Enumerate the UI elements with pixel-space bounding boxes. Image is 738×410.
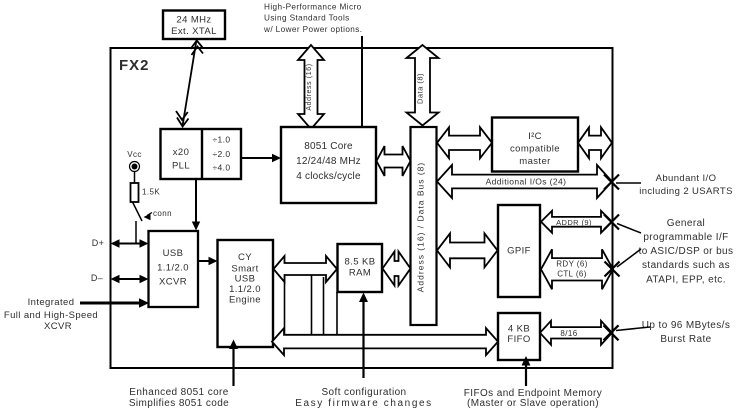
svg-text:÷4.0: ÷4.0 (212, 163, 230, 173)
svg-text:12/24/48 MHz: 12/24/48 MHz (296, 156, 361, 167)
svg-text:master: master (519, 156, 550, 167)
svg-text:Enhanced 8051 core: Enhanced 8051 core (129, 387, 229, 398)
svg-text:8.5 KB: 8.5 KB (345, 257, 376, 268)
svg-text:CY: CY (238, 252, 252, 263)
svg-text:I²C: I²C (528, 131, 542, 142)
svg-text:PLL: PLL (172, 161, 190, 172)
svg-text:programmable I/F: programmable I/F (643, 232, 728, 243)
svg-text:Burst Rate: Burst Rate (660, 334, 711, 345)
svg-text:24 MHz: 24 MHz (176, 15, 211, 26)
svg-text:Ext. XTAL: Ext. XTAL (171, 26, 217, 37)
svg-text:FIFO: FIFO (507, 334, 530, 345)
svg-text:including 2 USARTS: including 2 USARTS (639, 186, 733, 197)
svg-text:÷2.0: ÷2.0 (212, 149, 230, 159)
svg-text:CTL (6): CTL (6) (557, 270, 587, 279)
svg-text:RAM: RAM (349, 268, 371, 279)
svg-text:compatible: compatible (510, 144, 560, 155)
svg-text:w/ Lower Power options.: w/ Lower Power options. (263, 25, 362, 34)
svg-text:Address (16) / Data Bus (8): Address (16) / Data Bus (8) (416, 162, 426, 292)
svg-text:÷1.0: ÷1.0 (212, 135, 230, 145)
svg-text:Data (8): Data (8) (416, 73, 425, 104)
svg-text:Soft configuration: Soft configuration (321, 387, 406, 398)
svg-text:FX2: FX2 (119, 57, 150, 74)
svg-text:to ASIC/DSP or bus: to ASIC/DSP or bus (639, 246, 734, 257)
svg-text:XCVR: XCVR (44, 321, 72, 332)
svg-text:1.1/2.0: 1.1/2.0 (157, 263, 189, 274)
svg-text:1.1/2.0: 1.1/2.0 (229, 284, 261, 295)
svg-text:ATAPI, EPP, etc.: ATAPI, EPP, etc. (646, 275, 726, 286)
svg-text:4 clocks/cycle: 4 clocks/cycle (296, 171, 361, 182)
svg-text:USB: USB (163, 248, 184, 259)
svg-text:Using Standard Tools: Using Standard Tools (264, 14, 350, 23)
svg-text:XCVR: XCVR (159, 277, 187, 288)
svg-text:D+: D+ (92, 238, 105, 248)
svg-text:Easy firmware changes: Easy firmware changes (295, 398, 433, 409)
svg-text:8051 Core: 8051 Core (304, 141, 353, 152)
svg-text:(Master or Slave operation): (Master or Slave operation) (467, 398, 599, 409)
svg-text:standards such as: standards such as (642, 260, 730, 271)
svg-text:D–: D– (91, 273, 103, 283)
svg-text:4 KB: 4 KB (508, 324, 530, 335)
svg-text:1.5K: 1.5K (142, 188, 160, 197)
svg-text:x20: x20 (173, 147, 190, 158)
svg-text:RDY (6): RDY (6) (556, 260, 588, 269)
svg-text:High-Performance Micro: High-Performance Micro (264, 3, 362, 12)
svg-text:USB: USB (235, 274, 256, 285)
svg-text:Simplifies 8051 code: Simplifies 8051 code (129, 398, 229, 409)
svg-text:Abundant I/O: Abundant I/O (656, 173, 717, 184)
svg-text:conn: conn (153, 209, 172, 218)
svg-text:Integrated: Integrated (28, 297, 75, 308)
svg-text:ADDR (9): ADDR (9) (556, 218, 592, 227)
svg-text:Engine: Engine (229, 295, 261, 306)
svg-text:Vcc: Vcc (127, 150, 142, 159)
svg-text:Address (16): Address (16) (306, 63, 313, 110)
svg-text:8/16: 8/16 (560, 329, 577, 338)
svg-text:GPIF: GPIF (507, 246, 531, 257)
svg-text:Additional I/Os (24): Additional I/Os (24) (486, 177, 567, 187)
svg-text:General: General (667, 218, 705, 229)
svg-text:Full and High-Speed: Full and High-Speed (4, 310, 98, 321)
svg-text:Up to 96 MBytes/s: Up to 96 MBytes/s (642, 320, 731, 331)
